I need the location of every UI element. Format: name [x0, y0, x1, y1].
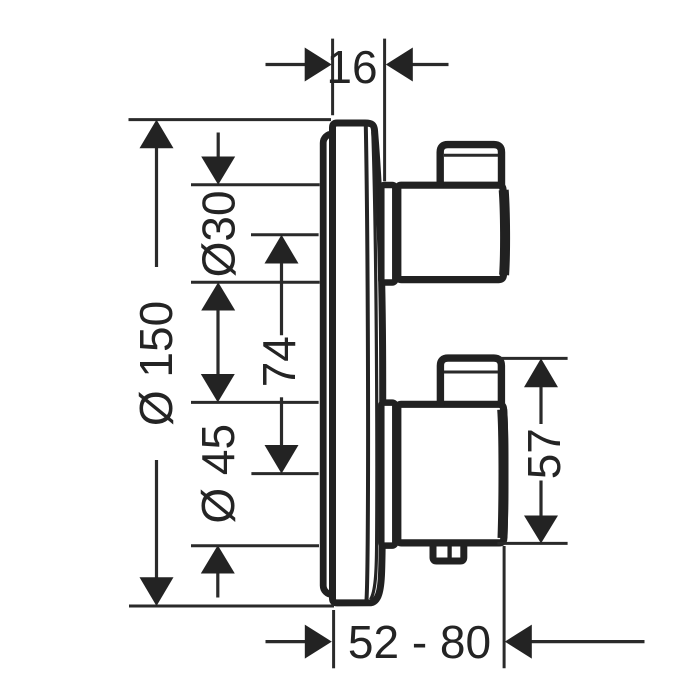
dim 74: lower dimension line [280, 397, 283, 445]
plate front-face rim line (outer thin) [371, 132, 377, 600]
dim 74: lower arrowhead [265, 445, 299, 474]
dim O150: top arrowhead [140, 120, 174, 149]
dim O30: upper arrowhead [201, 157, 235, 185]
dim O30/O45: shared middle tail line [216, 310, 219, 374]
dim 16: right arrowhead [386, 48, 413, 82]
svg-text:16: 16 [326, 41, 377, 93]
top handle grip [440, 145, 501, 188]
dim 57: bottom extension line [498, 542, 568, 545]
bottom handle body right edge [502, 410, 503, 539]
bottom tab divider [447, 544, 451, 559]
dim 74: bottom extension line [251, 472, 318, 475]
dim O30: lower arrowhead [201, 282, 235, 310]
escutcheon plate (side view, Ø150) [333, 123, 383, 603]
dim 52-80: left extension line [332, 610, 335, 668]
bottom tab (temperature stop button) [433, 546, 464, 561]
top handle grip seam line [444, 154, 498, 157]
dim 74: upper dimension line [280, 263, 283, 335]
dim O45: upper arrowhead [201, 374, 235, 402]
svg-text:52 - 80: 52 - 80 [348, 616, 491, 668]
dim 52-80: right dimension line [531, 640, 645, 643]
svg-text:57: 57 [518, 428, 570, 479]
dim 57: top extension line [500, 357, 568, 360]
bottom handle sleeve (Ø45 escutcheon) [381, 403, 395, 546]
svg-text:Ø 45: Ø 45 [192, 424, 244, 524]
dim O45: top extension line [191, 401, 319, 404]
dim 52-80: left arrowhead [305, 625, 332, 659]
dim O30: top extension line [191, 183, 320, 186]
dim O45: bottom extension line [191, 544, 319, 547]
dim O150: upper dimension line [155, 148, 158, 267]
dim O30: bottom extension line [191, 281, 320, 284]
dim 57: upper dimension line [539, 387, 542, 424]
dim 16: left extension line [331, 39, 334, 116]
dim 52-80: left dimension line [266, 640, 306, 643]
dim 52-80: right extension line [503, 546, 506, 668]
dim O150: lower dimension line [155, 460, 158, 578]
top handle sleeve (Ø30 escutcheon) [381, 185, 395, 283]
dim O150: top extension line [129, 118, 332, 121]
back plate (wall flange behind escutcheon) [323, 134, 350, 595]
dim 57: lower arrowhead [524, 516, 558, 544]
dim 74: top extension line [251, 233, 319, 236]
top handle body right edge [504, 190, 505, 275]
dim O45: lower tail line [216, 574, 219, 598]
dim 16: right dimension line [412, 63, 449, 66]
svg-text:Ø30: Ø30 [192, 190, 244, 277]
dim 57: lower dimension line [539, 481, 542, 516]
svg-text:Ø 150: Ø 150 [130, 301, 182, 426]
bottom handle grip seam line [444, 371, 498, 374]
dim 16: left dimension line [266, 63, 306, 66]
dim 16: left arrowhead [305, 48, 332, 82]
dim O45: lower arrowhead [201, 545, 235, 573]
dim O150: bottom extension line [129, 605, 334, 608]
dim 74: upper arrowhead [265, 235, 299, 264]
dim O30: upper tail line [217, 133, 220, 158]
dim 52-80: right arrowhead [505, 625, 532, 659]
svg-text:74: 74 [253, 336, 305, 387]
dim 57: upper arrowhead [524, 358, 558, 387]
top handle body [398, 185, 505, 279]
plate front-face edge line (inner thin) [366, 126, 368, 601]
bottom handle body [398, 404, 505, 543]
dim O150: bottom arrowhead [140, 577, 174, 606]
dim 16: right extension line [383, 39, 386, 182]
bottom handle grip [440, 358, 501, 406]
